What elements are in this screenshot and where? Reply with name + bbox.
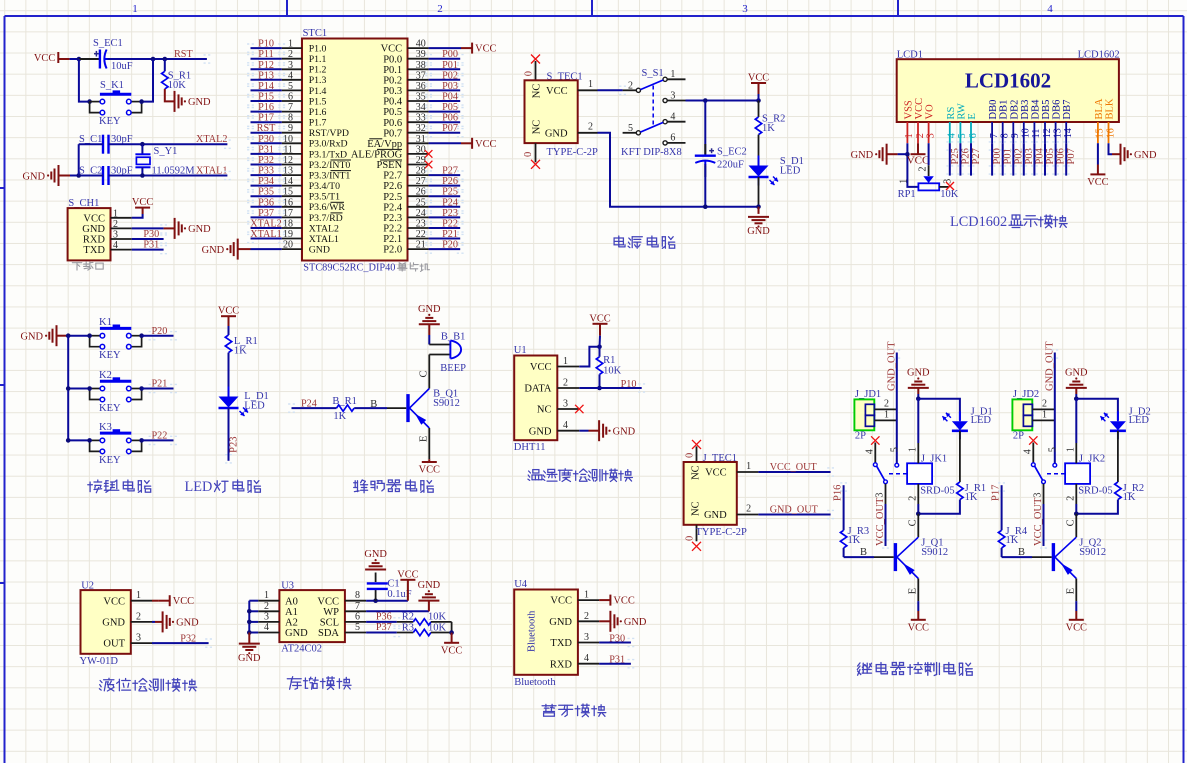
svg-text:GND: GND [624, 617, 647, 628]
svg-text:P32: P32 [258, 155, 274, 166]
svg-text:GND: GND [545, 129, 568, 140]
svg-text:4: 4 [288, 70, 293, 81]
svg-text:1: 1 [904, 133, 915, 138]
svg-text:P31: P31 [258, 144, 274, 155]
svg-text:S_EC2: S_EC2 [717, 147, 747, 158]
svg-text:VCC: VCC [589, 313, 610, 324]
svg-text:10K: 10K [168, 80, 187, 91]
svg-text:VCC: VCC [530, 362, 552, 373]
svg-text:LED: LED [780, 166, 801, 177]
svg-text:DB4: DB4 [1030, 99, 1041, 120]
svg-text:P01: P01 [442, 60, 458, 71]
svg-text:SRD-05: SRD-05 [1078, 486, 1112, 497]
svg-text:8: 8 [1000, 133, 1011, 138]
svg-text:P23: P23 [229, 437, 240, 453]
svg-text:5: 5 [957, 133, 968, 138]
svg-text:10: 10 [1021, 128, 1032, 138]
svg-text:P31: P31 [143, 240, 159, 251]
svg-text:0: 0 [685, 536, 696, 541]
svg-text:7: 7 [355, 601, 360, 612]
svg-text:3: 3 [288, 60, 293, 71]
svg-text:LED: LED [1129, 415, 1150, 426]
svg-text:6: 6 [288, 92, 293, 103]
svg-text:P31: P31 [609, 655, 625, 666]
svg-text:1: 1 [563, 356, 568, 367]
svg-text:XTAL1: XTAL1 [196, 166, 227, 177]
svg-text:C: C [1066, 519, 1077, 526]
svg-text:26: 26 [416, 187, 426, 198]
svg-text:LED: LED [185, 479, 213, 495]
svg-text:8: 8 [355, 590, 360, 601]
svg-text:P3.0/RxD: P3.0/RxD [309, 139, 348, 150]
svg-text:27: 27 [416, 176, 426, 187]
svg-text:P2.1: P2.1 [383, 234, 402, 245]
svg-text:VCC: VCC [705, 468, 727, 479]
svg-text:VCC: VCC [317, 596, 339, 607]
svg-text:B: B [1018, 547, 1025, 558]
svg-text:2: 2 [588, 122, 593, 133]
svg-text:VCC: VCC [132, 197, 153, 208]
svg-text:P2.6: P2.6 [383, 181, 402, 192]
svg-text:P24: P24 [442, 197, 458, 208]
svg-text:P00: P00 [442, 49, 458, 60]
svg-text:P11: P11 [258, 49, 273, 60]
svg-text:TYPE-C-2P: TYPE-C-2P [547, 147, 598, 158]
svg-text:S_EC1: S_EC1 [93, 38, 123, 49]
svg-text:2: 2 [437, 3, 443, 15]
svg-text:11: 11 [1031, 129, 1042, 139]
svg-text:E: E [908, 588, 919, 594]
svg-text:37: 37 [416, 70, 426, 81]
svg-text:P0.5: P0.5 [383, 107, 402, 118]
svg-text:C: C [419, 370, 430, 377]
svg-text:GND: GND [102, 618, 125, 629]
svg-text:GND: GND [22, 171, 45, 182]
svg-text:TYPE-C-2P: TYPE-C-2P [696, 527, 747, 538]
svg-text:SDA: SDA [318, 628, 339, 639]
svg-text:P20: P20 [152, 326, 168, 337]
svg-text:2P: 2P [1013, 431, 1024, 442]
svg-text:31: 31 [416, 134, 426, 145]
svg-text:BLA: BLA [1094, 98, 1105, 119]
svg-text:XTAL1: XTAL1 [250, 229, 281, 240]
svg-text:P17: P17 [258, 113, 274, 124]
svg-text:P2.2: P2.2 [383, 224, 402, 235]
svg-text:4: 4 [865, 449, 876, 454]
svg-text:1: 1 [1066, 447, 1077, 452]
svg-text:1K: 1K [762, 123, 775, 134]
svg-text:P32: P32 [180, 634, 196, 645]
svg-text:RST: RST [174, 49, 193, 60]
svg-text:2: 2 [584, 611, 589, 622]
svg-text:2: 2 [918, 167, 929, 172]
svg-text:5: 5 [628, 123, 633, 134]
svg-text:P02: P02 [1013, 148, 1024, 164]
svg-text:K1: K1 [99, 317, 112, 328]
svg-text:AT24C02: AT24C02 [281, 644, 322, 655]
svg-text:GND: GND [364, 549, 387, 560]
svg-text:DB6: DB6 [1052, 100, 1063, 120]
svg-text:VO: VO [925, 104, 936, 120]
svg-text:RXD: RXD [83, 235, 106, 246]
svg-text:1: 1 [264, 590, 269, 601]
svg-text:8: 8 [288, 113, 293, 124]
svg-text:RST/VPD: RST/VPD [309, 128, 349, 139]
svg-text:GND: GND [747, 226, 770, 237]
svg-text:VCC_OUT: VCC_OUT [770, 462, 818, 473]
svg-text:P10: P10 [621, 379, 637, 390]
svg-text:P07: P07 [1066, 148, 1077, 164]
svg-text:NC: NC [532, 84, 543, 99]
svg-text:E: E [1066, 588, 1077, 594]
svg-text:3: 3 [563, 399, 568, 410]
svg-text:STC1: STC1 [303, 28, 328, 39]
svg-text:23: 23 [416, 219, 426, 230]
svg-text:GND: GND [1134, 150, 1157, 161]
svg-text:P34: P34 [258, 176, 274, 187]
svg-text:P0.6: P0.6 [383, 118, 402, 129]
svg-text:RST: RST [257, 123, 276, 134]
svg-text:P2.3: P2.3 [383, 213, 402, 224]
svg-text:4: 4 [670, 112, 675, 123]
svg-text:VSS: VSS [903, 100, 914, 119]
svg-text:29: 29 [416, 155, 426, 166]
svg-text:3: 3 [943, 179, 954, 184]
svg-text:21: 21 [416, 240, 426, 251]
svg-text:XTAL2: XTAL2 [250, 219, 281, 230]
svg-text:VCC: VCC [173, 596, 194, 607]
svg-text:P0.7: P0.7 [383, 128, 402, 139]
svg-text:0: 0 [524, 71, 535, 76]
svg-text:4: 4 [1023, 449, 1034, 454]
svg-text:1K: 1K [333, 411, 346, 422]
svg-text:P3.3/INT1: P3.3/INT1 [309, 171, 351, 182]
svg-text:VCC: VCC [914, 98, 925, 120]
svg-text:P0.3: P0.3 [383, 86, 402, 97]
svg-text:VCC: VCC [1087, 177, 1108, 188]
svg-text:R3: R3 [402, 622, 414, 633]
svg-text:RW: RW [956, 103, 967, 119]
svg-text:6: 6 [968, 133, 979, 138]
svg-text:KFT DIP-8X8: KFT DIP-8X8 [621, 147, 682, 158]
svg-text:VCC: VCC [908, 622, 929, 633]
svg-text:OUT: OUT [103, 639, 125, 650]
svg-text:P0.2: P0.2 [383, 75, 402, 86]
svg-text:P30: P30 [143, 229, 159, 240]
svg-text:4: 4 [1047, 3, 1053, 15]
svg-text:2: 2 [136, 611, 141, 622]
svg-text:VCC: VCC [34, 53, 55, 64]
svg-text:GND: GND [176, 618, 199, 629]
svg-text:LCD1602: LCD1602 [950, 214, 1007, 230]
svg-text:11.0592M: 11.0592M [152, 166, 196, 177]
svg-text:1: 1 [584, 590, 589, 601]
svg-text:1K: 1K [848, 535, 861, 546]
svg-text:LED: LED [971, 415, 992, 426]
svg-text:5: 5 [355, 622, 360, 633]
svg-text:P27: P27 [971, 148, 982, 164]
svg-text:36: 36 [416, 81, 426, 92]
svg-text:GND: GND [418, 304, 441, 315]
svg-text:A1: A1 [285, 607, 298, 618]
svg-text:K2: K2 [99, 370, 112, 381]
svg-text:1K: 1K [965, 492, 978, 503]
svg-text:P1.5: P1.5 [309, 96, 327, 107]
svg-text:6: 6 [670, 133, 675, 144]
svg-text:R2: R2 [402, 612, 414, 623]
svg-text:5: 5 [890, 447, 901, 452]
svg-text:7: 7 [288, 102, 293, 113]
svg-text:DATA: DATA [524, 384, 552, 395]
svg-text:1: 1 [746, 461, 751, 472]
svg-text:EA/Vpp: EA/Vpp [367, 139, 402, 150]
svg-text:2: 2 [1066, 496, 1077, 501]
svg-text:P33: P33 [258, 166, 274, 177]
svg-text:P3.5/T1: P3.5/T1 [309, 192, 340, 203]
svg-text:P21: P21 [442, 229, 458, 240]
svg-text:P07: P07 [442, 123, 458, 134]
svg-text:GND: GND [851, 150, 874, 161]
svg-text:2: 2 [884, 399, 889, 410]
svg-text:P27: P27 [442, 166, 458, 177]
svg-text:P1.7: P1.7 [309, 118, 327, 129]
svg-text:3: 3 [742, 3, 748, 15]
svg-text:2: 2 [288, 49, 293, 60]
svg-text:U4: U4 [514, 579, 528, 590]
svg-text:15: 15 [1095, 128, 1106, 138]
svg-text:28: 28 [416, 166, 426, 177]
svg-text:DHT11: DHT11 [514, 442, 546, 453]
svg-text:NC: NC [691, 465, 702, 480]
svg-text:GND: GND [82, 224, 105, 235]
svg-text:GND: GND [188, 97, 211, 108]
svg-text:SRD-05: SRD-05 [920, 486, 954, 497]
svg-text:GND: GND [285, 628, 308, 639]
svg-text:1: 1 [908, 447, 919, 452]
svg-text:GND: GND [1065, 367, 1088, 378]
svg-text:GND: GND [309, 245, 330, 256]
svg-text:P2.5: P2.5 [383, 192, 402, 203]
svg-text:XTAL2: XTAL2 [309, 223, 339, 234]
svg-text:GND: GND [238, 653, 261, 664]
svg-text:9: 9 [1010, 133, 1021, 138]
svg-text:P03: P03 [442, 81, 458, 92]
svg-text:VCC: VCC [1066, 622, 1087, 633]
svg-text:9: 9 [288, 123, 293, 134]
svg-text:VCC: VCC [475, 139, 496, 150]
svg-text:10K: 10K [603, 365, 622, 376]
svg-text:S_S1: S_S1 [642, 68, 664, 79]
svg-text:25: 25 [416, 197, 426, 208]
svg-text:KEY: KEY [99, 350, 121, 361]
svg-text:P22: P22 [152, 431, 168, 442]
svg-text:P3.1/TxD: P3.1/TxD [309, 149, 347, 160]
svg-text:K3: K3 [99, 422, 112, 433]
svg-text:A2: A2 [285, 618, 298, 629]
svg-text:1: 1 [588, 79, 593, 90]
svg-text:1K: 1K [1123, 492, 1136, 503]
svg-text:2: 2 [264, 601, 269, 612]
svg-text:6: 6 [355, 611, 360, 622]
svg-text:P06: P06 [442, 113, 458, 124]
svg-text:7: 7 [989, 133, 1000, 138]
svg-text:34: 34 [416, 102, 426, 113]
svg-text:TXD: TXD [83, 245, 105, 256]
svg-text:10uF: 10uF [111, 61, 133, 72]
svg-text:SCL: SCL [320, 618, 339, 629]
svg-text:1: 1 [136, 590, 141, 601]
svg-text:J_JD2: J_JD2 [1013, 389, 1039, 400]
svg-text:S_K1: S_K1 [100, 80, 124, 91]
svg-text:P3.6/WR: P3.6/WR [309, 202, 346, 213]
svg-text:P30: P30 [258, 134, 274, 145]
svg-text:S9012: S9012 [1079, 547, 1106, 558]
svg-text:E: E [419, 436, 430, 442]
svg-text:P1.0: P1.0 [309, 44, 327, 55]
svg-text:BLK: BLK [1105, 98, 1116, 119]
svg-text:VCC: VCC [218, 306, 239, 317]
svg-text:VCC: VCC [475, 44, 496, 55]
svg-text:P15: P15 [258, 92, 274, 103]
svg-text:P2.7: P2.7 [383, 171, 402, 182]
svg-text:P16: P16 [833, 485, 844, 501]
svg-text:P37: P37 [258, 208, 274, 219]
svg-text:S9012: S9012 [433, 398, 460, 409]
svg-text:VCC: VCC [419, 465, 440, 476]
svg-text:GND: GND [613, 427, 636, 438]
svg-text:YW-01D: YW-01D [80, 656, 119, 667]
svg-text:3: 3 [925, 133, 936, 138]
svg-text:P13: P13 [258, 70, 274, 81]
svg-text:DB2: DB2 [1009, 100, 1020, 120]
svg-text:4: 4 [264, 622, 269, 633]
svg-text:S_Y1: S_Y1 [154, 146, 178, 157]
svg-text:VCC: VCC [441, 645, 462, 656]
svg-text:P04: P04 [442, 92, 458, 103]
svg-text:P10: P10 [258, 39, 274, 50]
svg-text:16: 16 [1105, 128, 1116, 138]
svg-text:VCC: VCC [397, 569, 418, 580]
svg-text:GND: GND [529, 426, 552, 437]
svg-text:2P: 2P [855, 431, 866, 442]
svg-text:38: 38 [416, 60, 426, 71]
svg-text:P14: P14 [258, 81, 274, 92]
svg-text:32: 32 [416, 123, 426, 134]
svg-text:1: 1 [132, 3, 138, 15]
svg-text:P22: P22 [442, 219, 458, 230]
svg-text:RXD: RXD [550, 659, 573, 670]
svg-text:40: 40 [416, 39, 426, 50]
svg-text:B_R1: B_R1 [332, 396, 357, 407]
svg-text:1: 1 [884, 410, 889, 421]
svg-text:39: 39 [416, 49, 426, 60]
svg-text:P1.6: P1.6 [309, 107, 327, 118]
svg-text:J_JD1: J_JD1 [855, 389, 881, 400]
svg-text:KEY: KEY [99, 403, 121, 414]
svg-text:2: 2 [746, 504, 751, 515]
svg-text:U1: U1 [514, 345, 527, 356]
svg-text:VCC: VCC [103, 596, 125, 607]
svg-text:P05: P05 [442, 102, 458, 113]
svg-text:VCC: VCC [381, 44, 403, 55]
svg-text:14: 14 [1063, 128, 1074, 138]
svg-text:0: 0 [685, 453, 696, 458]
svg-text:NC: NC [691, 501, 702, 516]
svg-text:Bluetooth: Bluetooth [514, 677, 556, 688]
svg-text:P1.1: P1.1 [309, 54, 327, 65]
svg-text:RS: RS [946, 106, 957, 119]
svg-text:GND: GND [549, 617, 572, 628]
svg-text:P21: P21 [152, 379, 168, 390]
svg-text:DB1: DB1 [999, 100, 1010, 120]
svg-text:1: 1 [899, 179, 910, 184]
svg-text:NC: NC [532, 120, 543, 135]
svg-text:220uF: 220uF [717, 160, 744, 171]
svg-text:1: 1 [1042, 410, 1047, 421]
svg-text:1: 1 [288, 39, 293, 50]
svg-text:XTAL2: XTAL2 [196, 134, 227, 145]
svg-text:P12: P12 [258, 60, 274, 71]
svg-text:P26: P26 [442, 176, 458, 187]
svg-text:P23: P23 [442, 208, 458, 219]
svg-text:PSEN: PSEN [377, 160, 403, 171]
svg-text:35: 35 [416, 92, 426, 103]
svg-text:GND: GND [418, 580, 441, 591]
svg-text:P02: P02 [442, 70, 458, 81]
svg-text:4: 4 [563, 420, 568, 431]
svg-text:2: 2 [908, 496, 919, 501]
svg-text:VCC: VCC [613, 596, 634, 607]
svg-text:P3.7/RD: P3.7/RD [309, 213, 343, 224]
svg-text:DB0: DB0 [988, 100, 999, 120]
svg-text:P20: P20 [442, 240, 458, 251]
svg-text:ALE/PROG: ALE/PROG [351, 150, 403, 161]
svg-text:VCC: VCC [546, 86, 568, 97]
svg-text:P0.4: P0.4 [383, 97, 403, 108]
svg-text:DB3: DB3 [1020, 100, 1031, 120]
svg-text:VCC: VCC [83, 213, 105, 224]
svg-text:2: 2 [563, 378, 568, 389]
svg-text:P30: P30 [609, 633, 625, 644]
svg-text:GND: GND [202, 245, 225, 256]
svg-text:P1.4: P1.4 [309, 86, 327, 97]
svg-text:5: 5 [288, 81, 293, 92]
svg-text:P2.0: P2.0 [383, 245, 402, 256]
svg-text:VCC: VCC [907, 155, 930, 167]
svg-text:P1.3: P1.3 [309, 75, 327, 86]
svg-text:3: 3 [584, 632, 589, 643]
svg-text:2: 2 [915, 133, 926, 138]
svg-text:GND: GND [704, 510, 727, 521]
svg-text:S9012: S9012 [921, 547, 948, 558]
svg-text:3: 3 [136, 633, 141, 644]
svg-text:Bluetooth: Bluetooth [527, 610, 538, 652]
svg-text:GND: GND [20, 332, 43, 343]
svg-text:3: 3 [875, 493, 886, 498]
svg-text:20: 20 [283, 240, 293, 251]
svg-text:30: 30 [416, 144, 426, 155]
svg-text:VCC_OUT: VCC_OUT [875, 497, 886, 546]
svg-text:P35: P35 [258, 187, 274, 198]
svg-text:KEY: KEY [99, 455, 121, 466]
svg-text:4: 4 [584, 653, 589, 664]
svg-text:DB7: DB7 [1062, 100, 1073, 120]
svg-text:P3.4/T0: P3.4/T0 [309, 181, 340, 192]
svg-text:P0.0: P0.0 [383, 54, 402, 65]
svg-text:C: C [908, 519, 919, 526]
svg-text:P0.1: P0.1 [383, 65, 402, 76]
svg-text:4: 4 [947, 133, 958, 138]
